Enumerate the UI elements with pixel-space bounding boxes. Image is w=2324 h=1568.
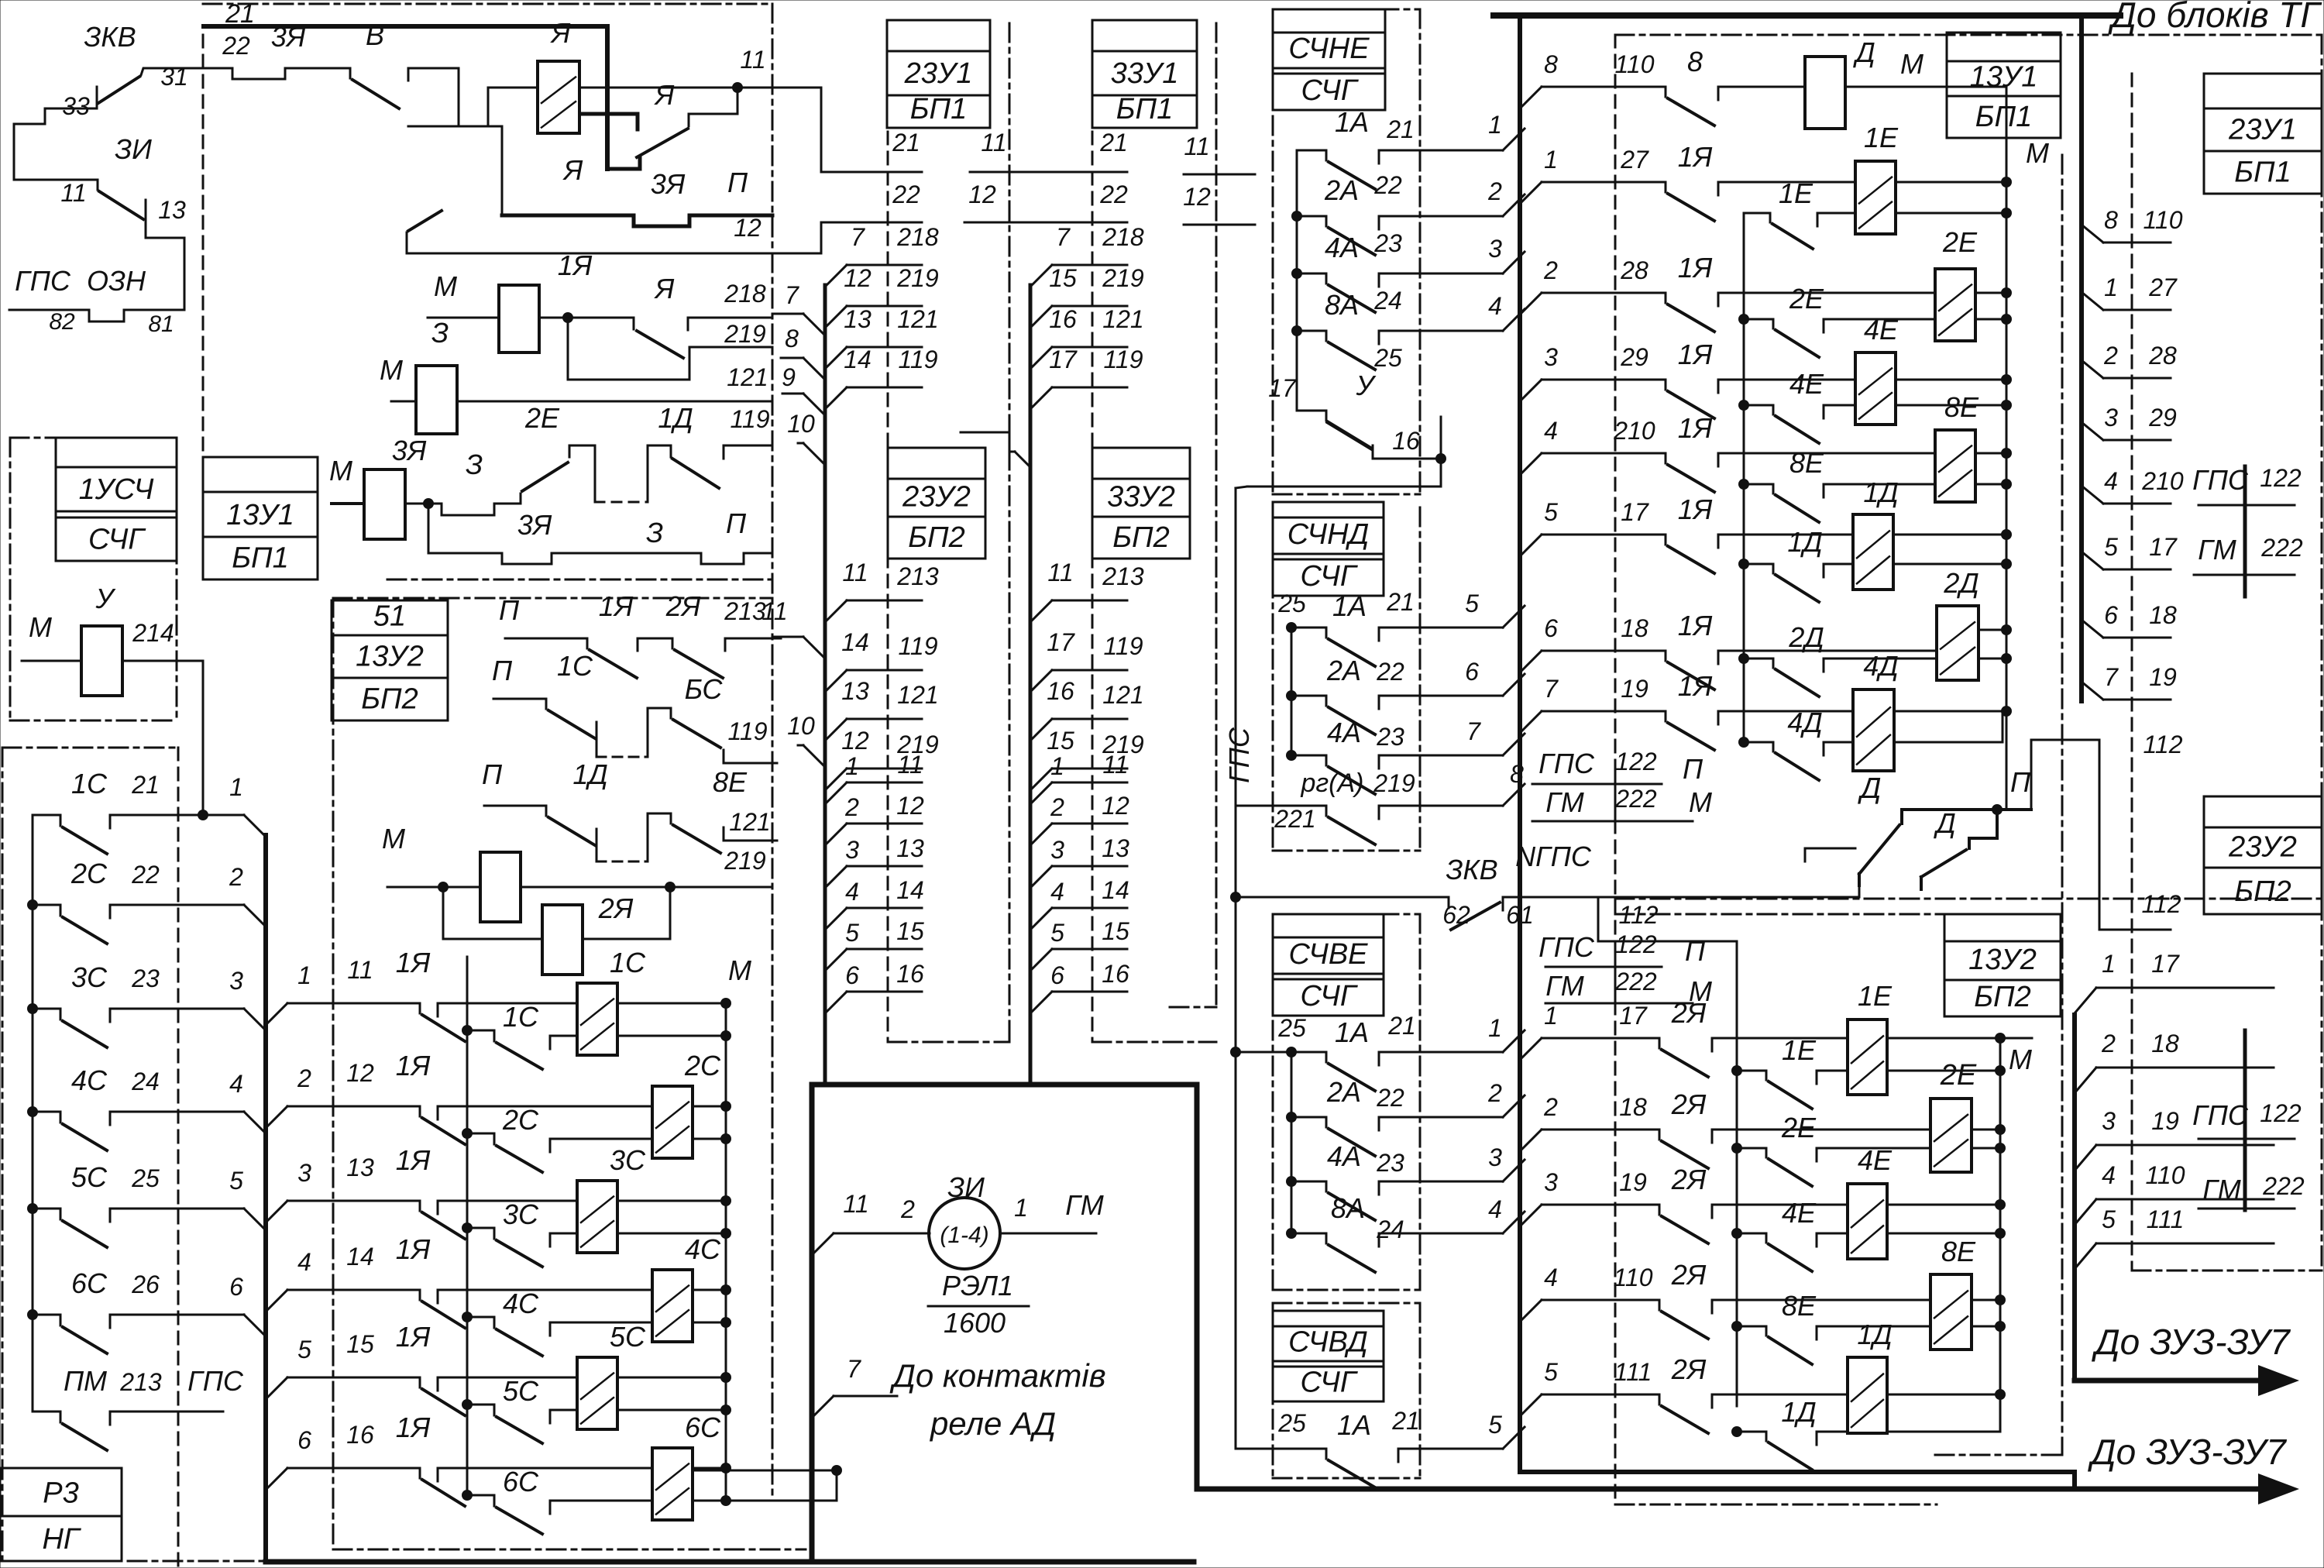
svg-text:У: У	[95, 583, 115, 614]
svg-text:У: У	[1355, 370, 1376, 401]
svg-text:1: 1	[297, 961, 311, 989]
svg-text:6: 6	[1544, 614, 1558, 642]
contact 8Е bus	[1738, 479, 1749, 490]
contact Я mid coil lead	[581, 112, 638, 116]
svg-text:5С: 5С	[71, 1161, 108, 1193]
svg-text:28: 28	[1620, 256, 1648, 284]
svg-text:5: 5	[1465, 590, 1479, 617]
svg-text:ГМ: ГМ	[2198, 534, 2236, 566]
bus middle collector x1330	[1029, 285, 1033, 1085]
bus left column collector x343	[263, 835, 268, 1560]
svg-text:24: 24	[131, 1068, 160, 1095]
wire busout low 3	[1520, 1205, 1542, 1226]
svg-text:121: 121	[1102, 681, 1143, 709]
wire ЗИ left loop	[14, 124, 98, 180]
wire colL mid 12/219	[825, 769, 847, 790]
svg-text:11: 11	[347, 956, 373, 984]
svg-text:2: 2	[2103, 342, 2118, 370]
wire coil5 lower to rail	[617, 1409, 726, 1412]
svg-text:3: 3	[1544, 1168, 1558, 1196]
wire ЗИ feed	[812, 1233, 834, 1255]
svg-text:22: 22	[1099, 181, 1128, 208]
box СЧВЕ-СЧГ	[1273, 914, 1384, 937]
svg-text:18: 18	[2149, 601, 2177, 629]
svg-text:1: 1	[1544, 1002, 1558, 1030]
coil 5С	[577, 1357, 617, 1429]
svg-text:2С: 2С	[502, 1104, 539, 1136]
svg-text:25: 25	[1277, 590, 1306, 617]
svg-text:2Е: 2Е	[1781, 1112, 1817, 1143]
wire busout 4 y585	[1520, 453, 1542, 475]
svg-text:М: М	[2009, 1044, 2032, 1075]
wire colR input corner	[961, 432, 1015, 452]
svg-text:4: 4	[229, 1070, 243, 1098]
svg-text:14: 14	[844, 346, 871, 373]
svg-text:2: 2	[844, 793, 859, 821]
contact 2А СЧВЕ	[1286, 1112, 1297, 1123]
wire colL in10a	[798, 442, 803, 445]
svg-text:1А: 1А	[1335, 106, 1369, 138]
wire fan 6-16	[266, 1468, 287, 1490]
contact row П-1С-БС	[493, 698, 546, 700]
wire 8А out diag	[1503, 309, 1525, 331]
region frame СЧНД box	[1272, 507, 1274, 851]
region frame right lower bottom	[1615, 1504, 1937, 1506]
svg-text:2: 2	[1487, 1079, 1502, 1107]
svg-text:1С: 1С	[557, 650, 593, 682]
contact 1Д bus low	[1731, 1426, 1742, 1437]
contact row П-1Я-2Я-213	[505, 638, 587, 640]
svg-text:4Е: 4Е	[1789, 368, 1824, 400]
region frame СЧВЕ box	[1273, 913, 1420, 916]
contact 1Я row y840	[1665, 651, 1667, 661]
contact 1Е bus	[1744, 212, 1770, 215]
svg-text:14: 14	[1102, 876, 1129, 904]
svg-text:М: М	[434, 270, 457, 302]
svg-text:3: 3	[297, 1159, 311, 1187]
svg-text:1Д: 1Д	[1857, 1319, 1892, 1350]
contact 1Я row y918	[1665, 711, 1667, 721]
svg-text:15: 15	[346, 1330, 374, 1358]
svg-text:23У1: 23У1	[2228, 114, 2297, 146]
svg-text:13У2: 13У2	[356, 641, 424, 673]
wire bus x2242 lower block	[1736, 941, 1738, 1406]
region frame top-left block	[203, 3, 772, 5]
svg-text:БП1: БП1	[2234, 156, 2291, 189]
wire colL low 4/14	[825, 908, 847, 930]
svg-text:218: 218	[1102, 223, 1144, 251]
svg-text:12: 12	[896, 792, 924, 820]
svg-text:1Я: 1Я	[599, 590, 634, 622]
svg-text:21: 21	[1386, 115, 1415, 143]
wire М rail right lower	[1999, 1038, 2002, 1432]
svg-text:213: 213	[724, 597, 766, 625]
svg-text:4Д: 4Д	[1863, 650, 1898, 682]
svg-text:121: 121	[729, 808, 770, 836]
wire colL low 5/15	[825, 949, 847, 971]
svg-text:218: 218	[896, 223, 939, 251]
svg-text:1Я: 1Я	[396, 1321, 431, 1353]
svg-text:СЧНЕ: СЧНЕ	[1288, 33, 1370, 65]
bus 21 top-left thick	[204, 24, 607, 29]
svg-text:23У2: 23У2	[902, 480, 971, 513]
wire rfan 6/18	[2082, 620, 2103, 638]
svg-text:16: 16	[1049, 305, 1077, 333]
wire 219 loop	[568, 318, 772, 380]
svg-text:11: 11	[1102, 751, 1128, 779]
svg-text:221: 221	[1274, 805, 1315, 833]
bus line A to arrows	[1520, 1470, 2075, 1474]
svg-text:3: 3	[2102, 1107, 2116, 1135]
svg-text:БП2: БП2	[1974, 981, 2030, 1013]
svg-text:М: М	[1689, 786, 1712, 818]
wire 1Е out	[1896, 181, 2006, 184]
svg-text:4С: 4С	[71, 1064, 108, 1096]
svg-text:П: П	[1683, 753, 1703, 785]
wire rfan low 2/18	[2075, 1068, 2096, 1093]
contact Я mid fixed side	[737, 88, 739, 114]
wire row4 3Я З П	[428, 504, 430, 553]
wire 12 row	[407, 222, 922, 253]
svg-text:210: 210	[1613, 417, 1655, 445]
svg-text:15: 15	[896, 917, 924, 945]
svg-text:3Я: 3Я	[271, 21, 306, 53]
svg-text:25: 25	[131, 1164, 160, 1192]
svg-text:16: 16	[1392, 427, 1420, 455]
svg-text:Д: Д	[1852, 36, 1875, 68]
svg-text:213: 213	[1102, 562, 1144, 590]
svg-text:1Я: 1Я	[1678, 252, 1713, 284]
svg-text:5: 5	[297, 1336, 311, 1363]
svg-text:28: 28	[2148, 342, 2177, 370]
svg-text:22: 22	[1376, 658, 1404, 686]
region frame right outer vertical x2997	[2321, 35, 2323, 1271]
wire rfan 4/210	[2082, 486, 2103, 504]
svg-text:17: 17	[1619, 1002, 1648, 1030]
svg-text:З: З	[431, 317, 449, 349]
wire 1Д lower out	[1893, 563, 2006, 566]
wire row690 lead	[1718, 534, 1853, 536]
svg-text:119: 119	[898, 632, 937, 660]
svg-text:119: 119	[1103, 346, 1143, 373]
svg-text:З: З	[466, 449, 483, 480]
wire row840 lead	[1718, 650, 1937, 652]
svg-text:БП1: БП1	[232, 542, 288, 575]
svg-text:27: 27	[1620, 146, 1649, 174]
svg-text:П: П	[1685, 935, 1706, 967]
contact 4А	[1291, 268, 1302, 279]
contact 1С lower	[462, 1025, 473, 1036]
svg-text:3: 3	[1488, 1143, 1502, 1171]
wire М row2 left	[391, 401, 416, 403]
arrow До ЗУЗ-ЗУ7 lower	[1197, 1487, 2258, 1492]
svg-text:9: 9	[782, 363, 796, 391]
wire rfan 8/110	[2082, 225, 2103, 242]
coil 1Д lower	[1848, 1357, 1887, 1433]
coil 1Е lower	[1848, 1020, 1887, 1095]
wire 33У1 out11	[1184, 174, 1255, 176]
svg-text:4: 4	[297, 1248, 311, 1276]
svg-text:111: 111	[2147, 1205, 2185, 1233]
wire С dashed column	[466, 957, 469, 1495]
svg-text:2А: 2А	[1324, 174, 1359, 206]
wire lrow1800 lead	[1712, 1394, 1848, 1396]
node ЗКВ	[1230, 892, 1241, 903]
wire node row1	[539, 317, 568, 319]
svg-text:ПМ: ПМ	[64, 1365, 107, 1397]
node 214-1С	[198, 810, 208, 820]
wire 8Е out	[1975, 452, 2006, 455]
contact рг(А) СЧНД	[1236, 805, 1326, 807]
svg-text:21: 21	[892, 129, 920, 156]
svg-text:2С: 2С	[70, 858, 108, 889]
svg-text:Я: Я	[654, 273, 675, 304]
contact 5С	[27, 1203, 38, 1214]
svg-text:210: 210	[2141, 467, 2184, 495]
svg-text:6: 6	[1050, 961, 1064, 989]
contact Я 218	[633, 318, 635, 329]
wire СЧНД rail	[1291, 628, 1293, 755]
svg-text:ГПС: ГПС	[1538, 931, 1595, 963]
wire 22 row	[203, 67, 225, 70]
region frame left bottom box	[2, 747, 177, 749]
svg-text:25: 25	[1277, 1014, 1306, 1042]
table ГПС-ГМ right lower	[2243, 1030, 2247, 1210]
svg-text:2С: 2С	[684, 1050, 721, 1081]
svg-text:13: 13	[841, 677, 869, 705]
svg-text:До блоків ТГ: До блоків ТГ	[2108, 0, 2322, 35]
wire colR low 1/11	[1030, 782, 1052, 804]
contact В	[349, 68, 352, 78]
svg-text:14: 14	[841, 628, 869, 656]
wire colR 7/218	[1030, 265, 1052, 287]
box 23У1-БП1	[887, 20, 990, 51]
svg-text:ЗИ: ЗИ	[115, 133, 152, 165]
region frame left small box 1УСЧ	[10, 437, 177, 439]
wire 2С to bus	[203, 904, 244, 906]
svg-text:1Д: 1Д	[1787, 526, 1822, 558]
svg-text:11: 11	[761, 597, 787, 625]
svg-text:17: 17	[2149, 533, 2178, 561]
contact 8 row y112	[1665, 87, 1667, 97]
region frame right double boundary y1160	[1615, 898, 2322, 900]
contact 1Я row2	[419, 1106, 421, 1116]
svg-text:17: 17	[1047, 628, 1075, 656]
wire 2Е lower out	[1975, 318, 2006, 321]
wire М row3	[332, 502, 364, 505]
contact 1А	[1297, 150, 1326, 152]
svg-text:БП1: БП1	[910, 93, 967, 126]
svg-text:18: 18	[2151, 1030, 2179, 1057]
svg-text:2: 2	[1050, 793, 1064, 821]
svg-text:1Е: 1Е	[1858, 980, 1893, 1012]
svg-text:3: 3	[229, 967, 243, 995]
wire 4Е lower out low	[1887, 1233, 2000, 1235]
svg-text:13: 13	[1102, 834, 1129, 862]
coil 1Я	[499, 285, 539, 352]
region frame left dashed vertical x262	[202, 35, 205, 457]
svg-text:219: 219	[896, 264, 939, 292]
coil Я	[538, 61, 579, 133]
wire rfan 5/17	[2082, 552, 2103, 569]
wire coil2 lower to rail	[693, 1138, 726, 1140]
wire rfan low 3/19	[2075, 1145, 2096, 1171]
contact 8А	[1291, 325, 1302, 336]
coil 1Я rowD	[480, 852, 521, 922]
svg-text:2Д: 2Д	[1943, 567, 1978, 599]
wire 8Е lower out	[1975, 483, 2006, 486]
svg-text:7: 7	[851, 223, 865, 251]
wire row585 lead	[1718, 452, 1935, 455]
wire 2Е out low	[1972, 1129, 2000, 1131]
wire М rail right upper	[2006, 182, 2008, 711]
bus До блоків ТГ top horizontal	[1494, 12, 2120, 19]
wire СЧВД feed	[1235, 1052, 1237, 1449]
wire 4Е lower out	[1896, 404, 2006, 407]
svg-text:12: 12	[734, 214, 761, 242]
svg-text:ГМ: ГМ	[1065, 1189, 1104, 1221]
wire 2Е out	[1975, 292, 2006, 294]
contact 1Я row5	[419, 1377, 421, 1387]
svg-text:17: 17	[1268, 374, 1297, 402]
svg-text:121: 121	[897, 681, 938, 709]
wire colL 12/219	[825, 306, 847, 328]
region frame left bottom dashed x230	[177, 748, 180, 1568]
svg-text:БП1: БП1	[1116, 93, 1173, 126]
svg-text:33: 33	[62, 92, 90, 120]
contact ЗИ	[97, 180, 99, 190]
wire colL mid 13/121	[825, 719, 847, 741]
wire colL low 6/16	[825, 992, 847, 1013]
wire 23У1 t21	[821, 171, 922, 174]
wire coil4 lower to rail	[693, 1322, 726, 1324]
svg-text:2Е: 2Е	[1789, 283, 1824, 315]
wire 33У1 out12	[1184, 224, 1255, 226]
wire 3С to bus	[203, 1008, 244, 1010]
svg-text:25: 25	[1373, 344, 1402, 372]
svg-text:219: 219	[724, 320, 766, 348]
svg-text:5: 5	[845, 919, 859, 947]
contact З row3	[520, 493, 522, 504]
wire rfan 7/19	[2082, 682, 2103, 700]
contact У СЧНЕ	[1296, 377, 1298, 411]
svg-text:6С: 6С	[71, 1267, 108, 1299]
wire left rail x1595	[1235, 488, 1237, 1052]
region frame right vertical x997	[772, 4, 774, 1495]
svg-text:М: М	[1900, 48, 1923, 80]
wire colR low 3/13	[1030, 866, 1052, 888]
svg-text:23У2: 23У2	[2228, 830, 2297, 863]
box СЧНД-СЧГ	[1273, 502, 1384, 518]
svg-text:5: 5	[1050, 919, 1064, 947]
svg-text:4: 4	[2104, 467, 2118, 495]
contact 2А СЧНД	[1286, 690, 1297, 701]
svg-text:110: 110	[1614, 50, 1654, 78]
line РЭЛ1	[928, 1305, 1029, 1308]
svg-text:NГПС: NГПС	[1515, 841, 1592, 872]
svg-text:21: 21	[131, 771, 160, 799]
svg-text:11: 11	[843, 1190, 868, 1218]
svg-text:4С: 4С	[685, 1233, 721, 1265]
region frame right bottom corner y1640	[2132, 1270, 2322, 1272]
contact 2С	[27, 899, 38, 910]
wire row378 lead	[1718, 292, 1935, 294]
wire row235 lead	[1718, 181, 1855, 184]
svg-text:3Я: 3Я	[517, 509, 552, 541]
svg-text:119: 119	[730, 405, 769, 433]
contact 1С	[33, 814, 60, 817]
svg-text:12: 12	[968, 181, 996, 208]
svg-text:1: 1	[845, 752, 859, 780]
wire 1А out diag	[1503, 129, 1525, 150]
svg-text:М: М	[728, 954, 751, 986]
wire fan 4-14	[266, 1290, 287, 1312]
svg-text:23У1: 23У1	[904, 57, 973, 90]
coil 2Е upper	[1935, 269, 1975, 341]
svg-text:3С: 3С	[71, 961, 108, 993]
svg-text:15: 15	[1047, 727, 1074, 755]
svg-text:М: М	[329, 455, 352, 487]
coil У	[81, 626, 122, 696]
svg-text:19: 19	[2149, 663, 2177, 691]
svg-text:2: 2	[1543, 1093, 1558, 1121]
svg-text:6: 6	[1465, 658, 1479, 686]
wire ЗКВ to bus2242	[1598, 897, 1737, 941]
svg-text:33У2: 33У2	[1107, 480, 1175, 513]
svg-text:119: 119	[1103, 632, 1143, 660]
coil З	[416, 366, 457, 434]
coil 4Д upper	[1853, 689, 1894, 771]
svg-text:В: В	[366, 19, 384, 51]
svg-text:Д: Д	[1933, 807, 1955, 839]
region frame col33У column	[1092, 132, 1094, 1042]
wire colR 16/121	[1030, 347, 1052, 369]
svg-text:25: 25	[1277, 1409, 1306, 1437]
svg-text:ГМ: ГМ	[1545, 786, 1584, 818]
svg-text:5: 5	[1544, 1358, 1558, 1386]
wire dashed link row3	[595, 501, 648, 504]
wire fan 5-15	[266, 1377, 287, 1399]
wire colL in9	[782, 393, 803, 395]
svg-text:2Я: 2Я	[1671, 1259, 1707, 1291]
svg-text:БП1: БП1	[1975, 101, 2032, 133]
svg-text:122: 122	[2260, 1099, 2302, 1127]
svg-text:13: 13	[896, 834, 924, 862]
box СЧВД-СЧГ	[1273, 1311, 1384, 1326]
coil 8Е upper	[1935, 430, 1975, 502]
svg-text:8Е: 8Е	[1789, 447, 1824, 479]
svg-text:17: 17	[1049, 346, 1078, 373]
svg-text:П: П	[492, 655, 513, 686]
svg-text:13: 13	[158, 196, 186, 224]
wire colR mid 16/121	[1030, 719, 1052, 741]
wire 23У1 t22	[821, 222, 922, 224]
svg-text:19: 19	[1619, 1168, 1647, 1196]
svg-text:17: 17	[1621, 498, 1649, 526]
svg-text:22: 22	[1376, 1084, 1404, 1112]
svg-text:222: 222	[1614, 785, 1657, 813]
svg-text:ГПС: ГПС	[1538, 748, 1595, 779]
svg-text:1Я: 1Я	[1678, 493, 1713, 525]
wire coil1 lower to rail	[617, 1035, 726, 1037]
contact 2Я low y1458	[1659, 1130, 1661, 1140]
svg-text:22: 22	[892, 181, 920, 208]
svg-text:21: 21	[225, 0, 255, 29]
svg-text:СЧГ: СЧГ	[88, 523, 146, 555]
contact 1Е bus low	[1731, 1065, 1742, 1076]
coil Д	[1805, 57, 1845, 129]
box СЧНЕ-СЧГ	[1273, 9, 1385, 33]
